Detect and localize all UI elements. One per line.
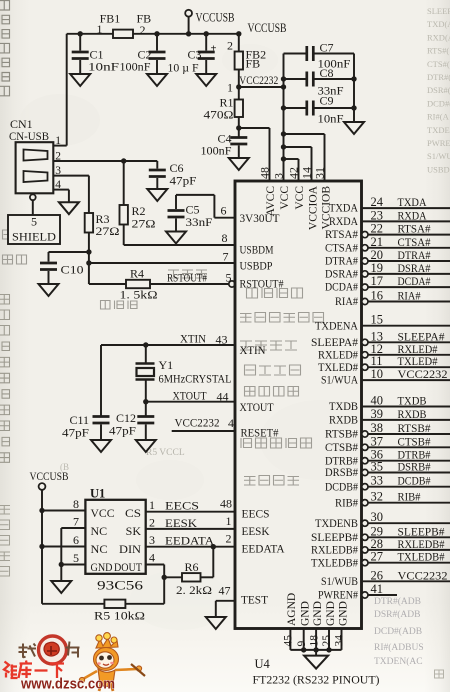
pin 32 RIB# wire: [362, 500, 368, 506]
node crystal top: [143, 342, 148, 347]
svg-text:DSRB#: DSRB#: [398, 460, 431, 474]
svg-text:RXDA: RXDA: [329, 216, 359, 228]
svg-text:S1/WUB: S1/WUB: [321, 576, 358, 588]
svg-text:USBDM: USBDM: [240, 245, 274, 257]
wire XTOUT: [146, 401, 235, 403]
node pin2 junction: [121, 158, 126, 163]
ground C12: [136, 440, 156, 452]
svg-text:32: 32: [371, 490, 384, 504]
svg-text:RTSB#: RTSB#: [325, 429, 358, 441]
svg-text:TXDENA: TXDENA: [315, 320, 359, 332]
svg-text:10nF: 10nF: [318, 112, 344, 126]
svg-text:47pF: 47pF: [109, 424, 136, 438]
pin 10 S1/WUA wire: [362, 379, 450, 381]
node crystal bottom: [143, 399, 148, 404]
svg-text:38: 38: [371, 421, 384, 435]
svg-text:1: 1: [149, 498, 155, 512]
ground TEST: [206, 617, 226, 629]
svg-text:4: 4: [55, 179, 61, 191]
svg-text:3: 3: [55, 165, 61, 177]
wire DOUT: [146, 564, 165, 566]
node shell CN1: [30, 194, 36, 200]
svg-text:NC: NC: [91, 542, 108, 556]
svg-text:24: 24: [371, 195, 384, 209]
svg-text:23: 23: [371, 208, 384, 222]
svg-text:VCC2232: VCC2232: [175, 418, 220, 430]
wire R4 to RSTOUT: [150, 283, 229, 285]
ground C3: [196, 74, 216, 86]
svg-text:GND: GND: [337, 601, 349, 626]
svg-text:CN-USB: CN-USB: [9, 129, 49, 143]
svg-text:44: 44: [217, 390, 229, 404]
svg-text:30: 30: [371, 510, 384, 524]
pin 28 RXLEDB# wire: [362, 547, 368, 553]
svg-text:35: 35: [371, 460, 384, 474]
ground C5: [166, 232, 186, 244]
svg-text:DCDB#: DCDB#: [325, 481, 358, 493]
svg-text:C8: C8: [320, 66, 334, 80]
pin 2 CN1: [53, 160, 123, 162]
svg-text:33: 33: [371, 474, 384, 488]
svg-text:EESK: EESK: [242, 526, 271, 538]
wire pin2 to C6: [124, 160, 158, 162]
svg-text:R5 VCCL: R5 VCCL: [146, 448, 185, 458]
pin 8 U1: [39, 508, 44, 513]
svg-text:10nF: 10nF: [88, 60, 119, 74]
wire cap group ground bus: [353, 54, 355, 123]
pin 5 U1: [59, 562, 64, 567]
svg-text:RSTOUT#: RSTOUT#: [167, 273, 207, 285]
svg-text:41: 41: [371, 582, 384, 596]
svg-text:SLEEPB#: SLEEPB#: [311, 532, 358, 544]
svg-text:DSRA#: DSRA#: [325, 269, 358, 281]
svg-text:VCC: VCC: [91, 506, 115, 520]
svg-text:27Ω: 27Ω: [132, 217, 156, 231]
svg-text:47pF: 47pF: [170, 174, 197, 188]
svg-text:DTRB#: DTRB#: [325, 455, 358, 467]
svg-text:R4: R4: [130, 267, 144, 281]
pin 12 RXLED# wire: [362, 352, 368, 358]
wire R1 to C4 node: [238, 117, 240, 137]
svg-text:SHIELD: SHIELD: [12, 232, 56, 244]
node C10 junction: [86, 249, 91, 254]
svg-text:DTR#(ADB: DTR#(ADB: [374, 596, 421, 607]
svg-text:RXDB: RXDB: [329, 415, 358, 427]
svg-text:TXLED#: TXLED#: [318, 362, 358, 374]
svg-text:RTS#(: RTS#(: [427, 46, 449, 56]
svg-text:47: 47: [219, 584, 231, 598]
resistor R4: [126, 280, 150, 288]
svg-text:10 µ F: 10 µ F: [168, 61, 199, 75]
svg-text:DSR#(ADB: DSR#(ADB: [374, 609, 420, 620]
svg-text:RXLED#: RXLED#: [318, 349, 358, 361]
svg-text:42: 42: [287, 167, 301, 179]
svg-text:48: 48: [258, 167, 272, 179]
svg-text:FB1: FB1: [100, 12, 121, 26]
ground U4: [304, 656, 328, 669]
ground C7 C8 C9: [344, 122, 364, 134]
svg-text:GND: GND: [312, 601, 324, 626]
capacitor C11: [93, 415, 110, 418]
svg-text:1: 1: [226, 514, 232, 528]
svg-text:S1/WUA: S1/WUA: [321, 375, 359, 387]
svg-text:TXLEDB#: TXLEDB#: [311, 557, 358, 569]
capacitor C6: [156, 161, 158, 169]
resistor R1: [235, 100, 243, 118]
svg-text:21: 21: [371, 235, 384, 249]
svg-text:GND: GND: [300, 601, 312, 626]
pin 6 U1: [39, 544, 44, 549]
ground C4: [229, 158, 249, 170]
svg-text:EEDATA: EEDATA: [242, 544, 286, 556]
svg-text:RI#(A: RI#(A: [427, 112, 450, 122]
svg-text:6: 6: [73, 533, 79, 547]
svg-text:RXDA: RXDA: [398, 208, 427, 222]
pin 23 RXDA wire: [362, 220, 450, 222]
wire AVCC feed: [239, 127, 270, 129]
pin 30 TXDENB wire: [362, 520, 368, 526]
svg-text:VCC: VCC: [279, 186, 291, 210]
ground U1: [51, 581, 71, 593]
wire RESET net: [172, 430, 235, 432]
svg-text:DCD#(ADB: DCD#(ADB: [374, 626, 422, 637]
ferrite bead FB1: [113, 30, 133, 38]
svg-text:DSR#(: DSR#(: [427, 85, 450, 95]
capacitor C12: [145, 402, 147, 416]
ground C10: [39, 284, 59, 296]
svg-text:DTRA#: DTRA#: [325, 256, 358, 268]
wire bottom ground bus: [290, 649, 341, 651]
capacitor C2: [154, 31, 159, 36]
capacitor C3 polarized: [204, 31, 209, 36]
pin 36 DTRB# wire: [362, 458, 368, 464]
node USBDP junction: [86, 260, 91, 265]
svg-text:25: 25: [321, 635, 333, 647]
svg-text:DCDA#: DCDA#: [398, 274, 431, 288]
svg-text:SLEEPA#: SLEEPA#: [311, 337, 358, 349]
capacitor C7: [284, 53, 307, 55]
svg-text:+: +: [211, 44, 217, 55]
svg-text:2: 2: [55, 151, 61, 163]
svg-text:17: 17: [371, 274, 384, 288]
svg-text:VCC2232: VCC2232: [398, 568, 448, 582]
wire U1 gnd drop: [60, 565, 62, 582]
svg-text:33nF: 33nF: [186, 215, 213, 229]
wire R3 column: [88, 233, 90, 285]
svg-text:VCCUSB: VCCUSB: [196, 11, 235, 25]
svg-text:RIA#: RIA#: [335, 296, 358, 308]
svg-text:DIN: DIN: [119, 542, 141, 556]
resistor R3: [88, 176, 90, 213]
svg-text:USBD: USBD: [427, 164, 450, 174]
svg-text:TXLED#: TXLED#: [398, 354, 438, 368]
wire VCCUSB top rail: [67, 33, 239, 35]
svg-text:TXDEN: TXDEN: [427, 125, 450, 135]
svg-text:93C56: 93C56: [97, 579, 143, 593]
wire VCC2232 bus: [283, 54, 285, 182]
svg-text:DTRA#: DTRA#: [398, 248, 431, 262]
svg-text:CTS#(: CTS#(: [427, 59, 450, 69]
svg-text:45: 45: [283, 635, 295, 647]
wire pin4 to ground: [68, 190, 70, 203]
wire R4 row left: [89, 283, 126, 285]
pin 11 TXLED# wire: [362, 364, 368, 370]
svg-text:39: 39: [371, 407, 384, 421]
svg-text:4: 4: [149, 551, 155, 565]
wire U1 nc drop: [60, 528, 62, 565]
pin 24 TXDA wire: [362, 207, 450, 209]
pin 22 RTSA# wire: [362, 232, 368, 238]
pin 17 DCDA# wire: [362, 284, 368, 290]
wire bus to ground: [315, 650, 317, 656]
wire rail to FB2: [236, 31, 241, 36]
svg-text:37: 37: [371, 434, 384, 448]
wire C5 to pin6: [175, 195, 177, 209]
svg-text:1: 1: [55, 135, 61, 147]
svg-text:VCC: VCC: [294, 186, 306, 210]
svg-text:www.dzsc.com: www.dzsc.com: [20, 677, 115, 692]
svg-text:DCDA#: DCDA#: [325, 282, 358, 294]
svg-text:100nF: 100nF: [201, 144, 232, 158]
svg-text:1: 1: [97, 22, 103, 36]
pin 19 DSRA# wire: [362, 271, 368, 277]
watermark mascot: [79, 633, 145, 691]
ground C6: [147, 189, 167, 201]
resistor R2: [123, 161, 125, 205]
svg-text:R5 10kΩ: R5 10kΩ: [94, 609, 145, 623]
resistor R5: [42, 603, 104, 605]
capacitor C5: [168, 209, 185, 212]
svg-text:6: 6: [221, 204, 227, 218]
svg-text:2. 2kΩ: 2. 2kΩ: [176, 583, 212, 597]
svg-text:TXDA: TXDA: [398, 195, 427, 209]
svg-text:26: 26: [371, 568, 384, 582]
svg-text:C9: C9: [320, 94, 334, 108]
capacitor C1: [78, 31, 83, 36]
svg-text:20: 20: [371, 248, 384, 262]
svg-text:XTOUT: XTOUT: [173, 389, 208, 403]
svg-text:3V30UT: 3V30UT: [240, 213, 280, 225]
wire TEST: [216, 600, 235, 602]
svg-text:RTSA#: RTSA#: [325, 229, 358, 241]
wire R2 to USBDM: [123, 225, 125, 246]
svg-text:7: 7: [73, 515, 79, 529]
svg-text:9: 9: [296, 641, 308, 647]
svg-text:U1: U1: [90, 487, 105, 501]
pin 29 SLEEPB# wire: [362, 534, 368, 540]
svg-text:EECS: EECS: [242, 509, 270, 521]
svg-text:6MHzCRYSTAL: 6MHzCRYSTAL: [159, 374, 232, 386]
chip U4 FT2232 outline: [235, 181, 362, 629]
svg-text:TEST: TEST: [241, 595, 268, 607]
pin 37 CTSB# wire: [362, 444, 368, 450]
svg-text:PWREN#: PWREN#: [318, 590, 358, 602]
svg-text:AVCC: AVCC: [265, 186, 277, 217]
svg-text:TXDB: TXDB: [329, 401, 358, 413]
svg-text:SK: SK: [126, 524, 142, 538]
svg-text:15: 15: [371, 313, 384, 327]
svg-text:DOUT: DOUT: [114, 560, 143, 574]
svg-text:RSTOUT#: RSTOUT#: [240, 279, 284, 291]
wire pin1 to rail: [66, 34, 68, 146]
svg-text:DSRA#: DSRA#: [398, 261, 431, 275]
shield box: [8, 215, 60, 244]
watermark text weiku yixia: [4, 661, 64, 679]
svg-text:8: 8: [222, 231, 228, 245]
paper mottle: [20, 44, 430, 630]
svg-text:DCDB#: DCDB#: [398, 474, 431, 488]
svg-text:RXDB: RXDB: [398, 407, 427, 421]
svg-text:U4: U4: [255, 657, 271, 671]
pin 35 DRSB# wire: [362, 469, 368, 475]
wire EEDATA: [146, 546, 235, 548]
pin 5 RSTOUT bubble: [229, 281, 235, 287]
svg-text:27Ω: 27Ω: [96, 224, 120, 238]
svg-text:RESET#: RESET#: [241, 428, 279, 440]
svg-text:GND: GND: [91, 560, 113, 574]
svg-text:40: 40: [371, 394, 384, 408]
svg-text:CTSA#: CTSA#: [398, 235, 431, 249]
svg-text:RIB#: RIB#: [335, 497, 358, 509]
svg-text:10: 10: [371, 367, 384, 381]
wire VCCUSB drop: [41, 490, 43, 604]
svg-text:C7: C7: [320, 41, 334, 55]
pin 13 SLEEPA# wire: [362, 339, 368, 345]
svg-text:5: 5: [226, 271, 232, 285]
svg-text:CTSA#: CTSA#: [325, 242, 358, 254]
pin 16 RIA# wire: [362, 298, 368, 304]
svg-text:TXDENB: TXDENB: [315, 518, 358, 530]
svg-text:RI#(ADBUS: RI#(ADBUS: [374, 642, 424, 653]
crystal Y1: [145, 345, 147, 363]
wire VCC pin42 branch: [281, 156, 286, 161]
svg-text:RTSB#: RTSB#: [398, 421, 431, 435]
ground CN1 pin4: [59, 202, 79, 214]
svg-text:4: 4: [228, 416, 234, 430]
svg-text:PWREN: PWREN: [427, 138, 450, 148]
pin 3 CN1: [53, 175, 89, 177]
svg-text:2: 2: [140, 23, 146, 37]
wire VCC2232 link: [239, 86, 284, 88]
watermark logo ball: [39, 636, 67, 664]
pin 40 TXDB wire: [362, 406, 450, 408]
pin 4 CN1: [53, 189, 69, 191]
svg-text:TXDB: TXDB: [398, 394, 427, 408]
pin 20 DTRA# wire: [362, 258, 368, 264]
svg-text:TXD(A: TXD(A: [427, 19, 450, 29]
node R6 left: [162, 575, 167, 580]
ferrite bead FB2: [235, 52, 243, 70]
terminal VCCUSB eeprom: [39, 483, 46, 490]
svg-text:14: 14: [300, 167, 314, 179]
svg-text:48: 48: [220, 497, 232, 511]
svg-text:47pF: 47pF: [62, 426, 89, 440]
svg-text:11: 11: [371, 354, 383, 368]
svg-text:RXLEDB#: RXLEDB#: [311, 545, 358, 557]
pin 15 TXDENA wire: [362, 325, 450, 327]
pin 26 S1/WUB wire: [362, 580, 450, 582]
connector CN1 body: [16, 142, 54, 193]
pin 41 PWREN# wire: [362, 592, 368, 598]
svg-text:5: 5: [73, 551, 79, 565]
svg-text:C10: C10: [61, 263, 84, 277]
capacitor C8: [281, 76, 286, 81]
ground C11: [91, 440, 111, 452]
pin 27 TXLEDB# wire: [362, 560, 368, 566]
svg-text:470Ω: 470Ω: [204, 108, 234, 122]
wire EESK: [146, 528, 235, 530]
svg-text:27: 27: [371, 550, 384, 564]
wire USBDP: [89, 262, 235, 264]
watermark char zhao: [19, 644, 37, 658]
svg-text:AGND: AGND: [286, 593, 298, 626]
wire XTIN left drop: [100, 345, 102, 416]
svg-text:19: 19: [371, 261, 384, 275]
svg-text:FT2232 (RS232 PINOUT): FT2232 (RS232 PINOUT): [253, 673, 380, 687]
watermark char pian: [66, 642, 80, 658]
svg-text:CS: CS: [125, 506, 141, 520]
pin 39 RXDB wire: [362, 419, 450, 421]
svg-text:RTSA#: RTSA#: [398, 222, 431, 236]
svg-text:Y1: Y1: [159, 358, 174, 372]
svg-text:RIA#: RIA#: [398, 289, 421, 303]
resistor R6: [164, 576, 182, 578]
capacitor C9: [281, 105, 286, 110]
svg-text:TXDEN(AC: TXDEN(AC: [374, 656, 423, 667]
svg-text:S1/WU: S1/WU: [427, 151, 450, 161]
svg-text:3: 3: [149, 533, 155, 547]
ground C2: [147, 74, 167, 86]
terminal VCCUSB top: [185, 10, 192, 17]
wire VCCIOA branch: [281, 144, 286, 149]
svg-text:VCCUSB: VCCUSB: [30, 469, 69, 483]
wire DOUT drop: [163, 565, 165, 604]
svg-text:NC: NC: [91, 524, 108, 538]
svg-text:VCCUSB: VCCUSB: [248, 21, 287, 35]
svg-text:SLEEP#: SLEEP#: [427, 6, 450, 16]
svg-text:3: 3: [272, 173, 286, 179]
svg-text:FB: FB: [246, 57, 261, 71]
pin 33 DCDB# wire: [362, 484, 368, 490]
svg-text:XTOUT: XTOUT: [240, 402, 274, 414]
svg-text:GND: GND: [325, 601, 337, 626]
svg-text:VCC2232: VCC2232: [398, 367, 448, 381]
ground C1: [70, 74, 90, 86]
svg-text:8: 8: [73, 497, 79, 511]
capacitor C10: [48, 252, 50, 262]
svg-text:DCD#(: DCD#(: [427, 98, 450, 108]
pin 38 RTSB# wire: [362, 431, 368, 437]
wire XTIN: [101, 344, 235, 346]
svg-text:16: 16: [371, 289, 384, 303]
svg-text:EECS: EECS: [165, 499, 199, 513]
svg-text:100nF: 100nF: [120, 60, 151, 74]
pin 7 U1: [61, 527, 85, 529]
wire FB2 to R1 node: [238, 70, 240, 100]
svg-text:DRSB#: DRSB#: [325, 467, 358, 479]
svg-text:2: 2: [226, 532, 232, 546]
svg-text:VCC2232: VCC2232: [239, 75, 278, 87]
svg-text:USBDP: USBDP: [240, 261, 273, 273]
pin 1 CN1: [53, 145, 66, 147]
svg-text:RIB#: RIB#: [398, 490, 421, 504]
svg-text:2: 2: [227, 39, 233, 53]
svg-text:DTR#(: DTR#(: [427, 72, 450, 82]
svg-text:TXLEDB#: TXLEDB#: [398, 550, 445, 564]
capacitor C4: [230, 136, 247, 139]
svg-text:RXD(A: RXD(A: [427, 32, 450, 42]
svg-text:2: 2: [149, 516, 155, 530]
